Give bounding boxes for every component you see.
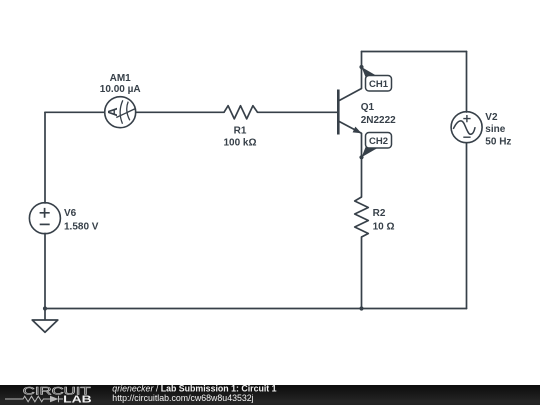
source V2: [451, 112, 482, 143]
wire V2 bottom lead: [466, 143, 468, 309]
flag CH2: [362, 146, 379, 157]
wire V6 top lead: [44, 112, 46, 203]
collector diagonal: [339, 89, 362, 101]
wire left top (corner to AM1): [45, 111, 105, 113]
wire top (collector to V2): [362, 51, 467, 53]
emitter diagonal: [339, 121, 362, 133]
footer bar: [0, 385, 540, 405]
wire R2 bottom lead: [361, 237, 363, 309]
logo diode: [50, 396, 59, 402]
wire emitter vertical: [361, 133, 363, 197]
wire bottom: [45, 308, 467, 310]
wire V2 top lead: [466, 52, 468, 113]
V2 sine: [453, 121, 475, 134]
node dot collector: [359, 65, 363, 69]
source V6: [29, 203, 60, 234]
transistor Q1: [338, 89, 361, 135]
V2 minus: [463, 136, 470, 138]
svg-text:http://circuitlab.com/cw68w8u4: http://circuitlab.com/cw68w8u43532j: [112, 393, 253, 403]
V6 minus: [40, 223, 50, 225]
V2 plus: [463, 115, 470, 122]
node dot R2 bottom: [359, 306, 363, 310]
node dot CH2: [359, 155, 363, 159]
wire AM1 to R1: [136, 111, 224, 113]
V6 plus: [40, 208, 50, 218]
flag CH1: [362, 67, 379, 78]
svg-text:LAB: LAB: [63, 394, 92, 405]
ground: [32, 320, 58, 332]
node dot ground junction: [43, 306, 47, 310]
resistor R2: [355, 197, 369, 237]
logo squiggle wire: [5, 396, 63, 402]
wire ground stub: [44, 309, 46, 321]
wire V6 bottom lead: [44, 233, 46, 308]
ammeter AM1: [105, 97, 136, 128]
emitter arrow: [353, 127, 362, 134]
wire collector vertical: [361, 52, 363, 89]
wire R1 to base: [258, 111, 338, 113]
base bar: [337, 90, 340, 135]
resistor R1: [224, 106, 258, 119]
